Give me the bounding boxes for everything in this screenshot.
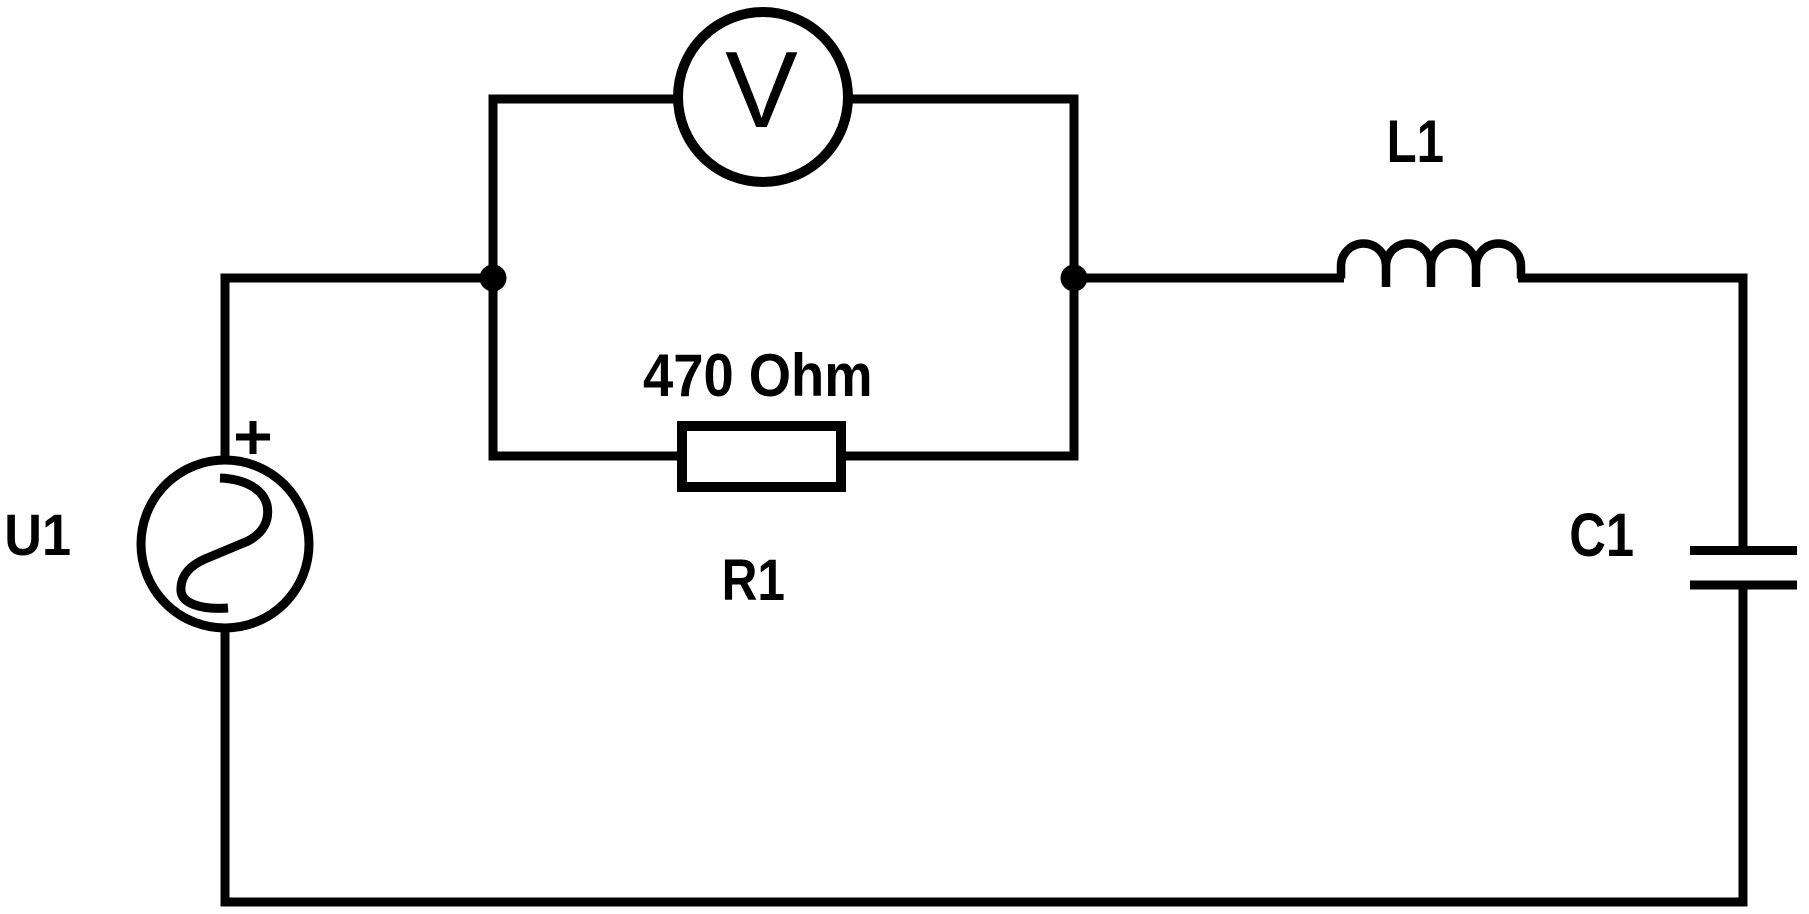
wire: U1 top lead to left junction (node A) <box>221 274 498 283</box>
junction node A (left dot) <box>480 265 507 292</box>
inductor L1 leg stub 2 <box>1427 266 1436 287</box>
value label 470 Ohm <box>643 343 873 410</box>
AC source U1 sine waveform <box>181 478 268 608</box>
label R1 <box>722 548 785 612</box>
inductor L1 leg stub 3 <box>1472 266 1481 287</box>
label U1 <box>4 502 71 567</box>
junction node B (right dot) <box>1061 265 1088 292</box>
svg-text:R1: R1 <box>722 548 785 612</box>
inductor L1 leg stub 1 <box>1382 266 1391 287</box>
wire: right rail lower (C1 bottom plate to bottom rail) <box>1739 589 1748 907</box>
label C1 <box>1569 501 1634 570</box>
svg-text:C1: C1 <box>1569 501 1634 570</box>
svg-text:U1: U1 <box>4 502 71 567</box>
capacitor C1 bottom plate <box>1690 581 1797 590</box>
label L1 <box>1387 107 1444 175</box>
wire: left rail upper (into U1 top) <box>221 274 230 461</box>
svg-text:V: V <box>725 29 798 151</box>
capacitor C1 top plate <box>1690 546 1797 555</box>
wire: voltmeter branch right horizontal <box>844 95 1079 104</box>
svg-text:470 Ohm: 470 Ohm <box>643 343 873 410</box>
wire: left parallel-branch vertical <box>489 95 498 461</box>
svg-text:L1: L1 <box>1387 107 1444 175</box>
wire: resistor branch left horizontal <box>489 452 681 461</box>
voltmeter V (circle) <box>678 12 848 182</box>
resistor R1 (box) <box>682 426 841 487</box>
wire: right junction to inductor L1 <box>1070 274 1345 283</box>
AC voltage source U1 (circle) <box>141 460 309 628</box>
wire: bottom return rail <box>221 898 1748 907</box>
wire: inductor L1 to right rail <box>1518 274 1748 283</box>
wire: left rail lower (U1 bottom to bottom rail) <box>221 628 230 907</box>
wire: voltmeter branch left horizontal <box>489 95 683 104</box>
wire: right parallel-branch vertical <box>1070 95 1079 461</box>
U1 polarity plus sign <box>236 421 270 454</box>
wire: resistor branch right horizontal <box>843 452 1079 461</box>
inductor L1 (4 arches) <box>1341 244 1521 279</box>
wire: right rail upper (to C1 top plate) <box>1739 274 1748 547</box>
